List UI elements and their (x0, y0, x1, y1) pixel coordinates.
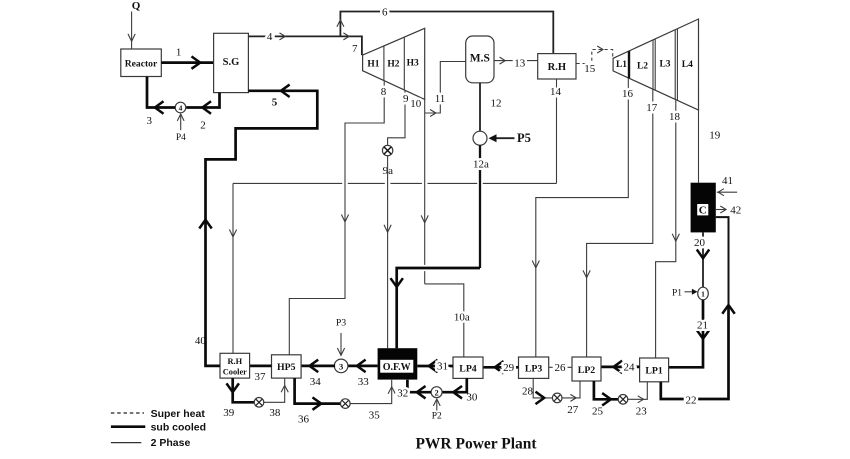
feedwater tank O.F.W (378, 348, 418, 379)
svg-text:7: 7 (352, 43, 358, 55)
wire 4 S.G to HP turbine inlet (248, 31, 362, 55)
wire 15 dashed superheat R.H to LP turbine (577, 46, 613, 75)
valve 9a (382, 145, 393, 177)
HP turbine H1 H2 H3 (363, 28, 425, 99)
steam generator S.G (214, 33, 249, 92)
wire 37 HP5 to R.H Cooler (250, 366, 272, 383)
reheater R.H (538, 54, 576, 79)
svg-text:4: 4 (267, 31, 273, 43)
svg-text:26: 26 (555, 362, 567, 374)
svg-text:P2: P2 (432, 412, 442, 422)
drain 36 35 HP5 to O.F.W (295, 378, 396, 425)
svg-text:4: 4 (179, 103, 183, 112)
heater LP4 (453, 357, 483, 378)
wire 20 condenser to pump P1 (694, 232, 709, 287)
svg-text:35: 35 (369, 409, 381, 421)
svg-text:H1: H1 (367, 59, 379, 69)
wire 21 P1 to LP1 (669, 300, 709, 368)
pump P5 (473, 131, 531, 145)
svg-text:19: 19 (709, 130, 721, 142)
svg-text:41: 41 (722, 175, 733, 187)
svg-text:3: 3 (146, 115, 152, 127)
svg-text:H2: H2 (387, 59, 399, 69)
svg-text:33: 33 (358, 376, 370, 388)
svg-text:34: 34 (310, 376, 322, 388)
svg-text:14: 14 (550, 86, 562, 98)
pump P1 (672, 287, 708, 300)
svg-text:27: 27 (567, 404, 579, 416)
wire 6 main steam to reheater R.H (337, 6, 553, 53)
wire 9 extraction to valve 9a (388, 90, 409, 145)
svg-text:HP5: HP5 (277, 362, 296, 373)
svg-text:PWR Power Plant: PWR Power Plant (415, 436, 537, 453)
svg-text:10: 10 (410, 98, 422, 110)
svg-text:2: 2 (435, 388, 439, 397)
svg-text:15: 15 (584, 63, 596, 75)
node Q heat input (128, 0, 141, 49)
svg-text:18: 18 (669, 111, 681, 123)
svg-text:LP1: LP1 (645, 365, 663, 376)
svg-text:29: 29 (503, 362, 515, 374)
drain 22 LP1 to condenser (661, 217, 734, 406)
svg-text:2 Phase: 2 Phase (151, 437, 191, 449)
svg-text:20: 20 (694, 237, 706, 249)
svg-text:1: 1 (176, 46, 182, 58)
wire 17 extraction to LP2 (583, 89, 658, 357)
moisture separator M.S (466, 36, 494, 83)
legend sub cooled (111, 421, 206, 433)
svg-text:2: 2 (200, 120, 206, 132)
svg-text:30: 30 (466, 391, 478, 403)
drain 25 23 LP2 to LP1 (592, 381, 647, 417)
wire 40 feedwater riser to S.G (line 5) (195, 85, 317, 366)
svg-text:S.G: S.G (223, 57, 240, 68)
wire 29 LP3 to LP4 (483, 362, 519, 374)
heater LP1 (640, 358, 669, 382)
svg-text:Cooler: Cooler (223, 367, 247, 376)
svg-text:Q: Q (132, 0, 141, 12)
svg-text:O.F.W: O.F.W (383, 362, 411, 373)
svg-text:10a: 10a (454, 311, 470, 323)
svg-text:9: 9 (403, 93, 409, 105)
svg-text:M.S: M.S (470, 53, 490, 65)
svg-text:sub cooled: sub cooled (151, 421, 206, 433)
wire 16 extraction to LP3 (532, 78, 633, 357)
svg-text:1: 1 (701, 289, 705, 298)
drain 39 38 R.H Cooler to HP5 (223, 378, 288, 419)
svg-text:23: 23 (636, 405, 648, 417)
svg-text:LP3: LP3 (525, 363, 543, 374)
svg-text:36: 36 (298, 414, 310, 426)
svg-text:C: C (699, 205, 707, 217)
svg-text:H3: H3 (407, 58, 419, 68)
reactor vessel (121, 49, 162, 77)
heater LP3 (519, 357, 549, 378)
svg-text:R.H: R.H (548, 62, 566, 73)
svg-text:22: 22 (686, 394, 697, 406)
pump P3 (334, 317, 348, 372)
svg-text:P3: P3 (336, 317, 346, 328)
svg-text:Super heat: Super heat (151, 408, 206, 420)
heater LP2 (572, 357, 601, 381)
wire 34 P3 to HP5 (301, 360, 335, 388)
wire 1 reactor to S.G (161, 46, 213, 68)
svg-text:31: 31 (437, 360, 448, 372)
svg-text:40: 40 (195, 335, 207, 347)
svg-text:13: 13 (514, 58, 526, 70)
wire 12a P5 to O.F.W (391, 145, 489, 348)
wire 18 extraction to LP1 (656, 100, 681, 358)
svg-text:16: 16 (622, 88, 634, 100)
svg-text:P5: P5 (517, 131, 531, 145)
LP turbine L1 L2 L3 L4 (613, 19, 698, 110)
svg-text:LP2: LP2 (578, 365, 596, 376)
wire 31 LP4 to O.F.W (417, 360, 453, 372)
svg-text:8: 8 (381, 86, 387, 98)
wire 10a to LP4 (425, 284, 470, 357)
wire 41 cooling water in (717, 175, 737, 196)
drain 28 27 LP3 to LP2 (522, 378, 580, 416)
condenser C (691, 183, 716, 233)
svg-text:28: 28 (522, 386, 534, 398)
svg-text:17: 17 (646, 102, 658, 114)
title PWR Power Plant (415, 436, 537, 453)
svg-text:12a: 12a (473, 158, 489, 170)
svg-text:42: 42 (730, 204, 741, 216)
heater HP5 (272, 355, 302, 378)
svg-text:L2: L2 (637, 62, 648, 72)
wire 33 O.F.W to pump P3 (347, 360, 377, 388)
wire 26 LP2 to LP3 (549, 362, 572, 374)
svg-text:R.H: R.H (227, 357, 242, 366)
svg-text:32: 32 (397, 388, 408, 400)
wire 42 cooling water out (716, 204, 742, 216)
legend 2 phase (111, 437, 191, 449)
svg-text:LP4: LP4 (459, 363, 477, 374)
wire 10 HP exhaust down (410, 98, 428, 284)
svg-text:P4: P4 (176, 133, 186, 143)
wire 8 extraction to HP5 (289, 81, 386, 355)
svg-text:39: 39 (223, 407, 235, 419)
svg-text:37: 37 (255, 371, 267, 383)
pump P4 (175, 102, 186, 143)
wire 2 S.G to pump P4 (186, 93, 219, 132)
svg-text:25: 25 (592, 405, 604, 417)
wire 12 M.S drain to pump P5 (480, 83, 502, 132)
svg-text:38: 38 (269, 407, 281, 419)
svg-text:21: 21 (697, 319, 708, 331)
svg-text:L1: L1 (616, 60, 627, 70)
legend superheat (111, 408, 205, 420)
wire 19 LP exhaust to condenser (699, 110, 721, 183)
svg-text:12: 12 (491, 97, 502, 109)
svg-text:11: 11 (435, 93, 446, 105)
wire 24 LP1 to LP2 (601, 361, 640, 373)
wire 9a valve to O.F.W (384, 155, 391, 348)
drain 30 32 LP4 via pump P2 to O.F.W (397, 378, 478, 422)
wire 11 to moisture separator (425, 62, 466, 117)
svg-text:P1: P1 (672, 289, 682, 299)
svg-text:Reactor: Reactor (125, 58, 158, 69)
svg-text:L3: L3 (659, 59, 670, 69)
wire 3 pump P4 to reactor (146, 77, 175, 127)
svg-text:5: 5 (272, 96, 278, 108)
svg-text:3: 3 (339, 361, 343, 371)
R.H Cooler (220, 353, 250, 378)
svg-text:24: 24 (624, 362, 636, 374)
svg-text:L4: L4 (682, 60, 693, 70)
wire 13 M.S to R.H (494, 57, 538, 70)
wire 14 R.H drain to R.H Cooler (229, 79, 561, 353)
svg-text:6: 6 (382, 6, 388, 18)
